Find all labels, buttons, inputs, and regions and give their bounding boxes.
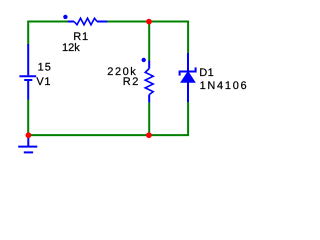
terminal dot R1 (63, 15, 67, 19)
svg-text:V1: V1 (36, 76, 51, 88)
ground (18, 135, 37, 152)
svg-text:1N4106: 1N4106 (200, 80, 249, 92)
svg-text:D1: D1 (199, 67, 214, 79)
node junction top (R2/top wire) (146, 19, 152, 25)
wire top-right: from R1 right to top-right corner down to diode (107, 22, 188, 54)
diode D1 (zener) (180, 53, 196, 102)
svg-text:12k: 12k (62, 42, 80, 54)
svg-text:15: 15 (38, 62, 52, 74)
wire R2 upper (148, 22, 150, 61)
resistor R1 (68, 18, 107, 25)
wire top-left: from R1 left to top-left corner down to battery (28, 22, 68, 45)
battery V1 (19, 44, 36, 100)
svg-text:R2: R2 (123, 76, 140, 88)
node junction bottom (R2/bottom wire) (146, 132, 152, 138)
resistor R2 (145, 61, 153, 103)
node junction bottom-left (battery/ground/bottom wire) (26, 132, 32, 138)
terminal dot R2 (142, 58, 146, 62)
diode D1 triangle (181, 72, 195, 83)
wire R2 lower (148, 102, 150, 135)
wire bottom: battery bottom to bottom-left corner, bottom run, up to diode (28, 99, 188, 135)
